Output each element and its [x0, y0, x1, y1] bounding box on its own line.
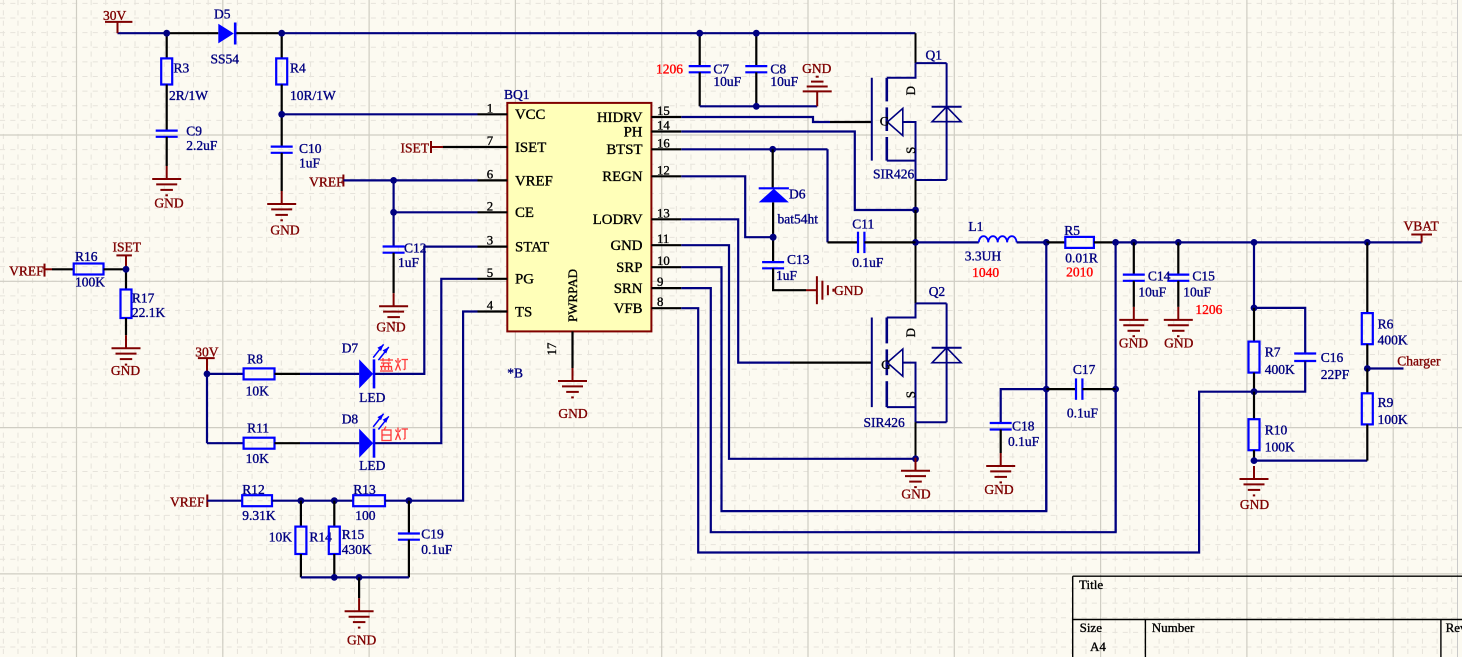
svg-text:R4: R4: [290, 61, 306, 76]
svg-text:PG: PG: [515, 272, 534, 288]
svg-text:2R/1W: 2R/1W: [169, 88, 208, 103]
svg-text:CE: CE: [515, 205, 534, 221]
svg-text:GND: GND: [802, 61, 831, 76]
svg-text:10K: 10K: [269, 530, 293, 545]
svg-text:10R/1W: 10R/1W: [290, 88, 336, 103]
svg-text:1uF: 1uF: [299, 156, 321, 171]
svg-text:SRP: SRP: [616, 260, 642, 276]
svg-text:C15: C15: [1192, 269, 1215, 284]
svg-text:13: 13: [657, 206, 670, 220]
svg-text:Q2: Q2: [929, 284, 946, 299]
svg-text:0.1uF: 0.1uF: [852, 255, 884, 270]
svg-text:R6: R6: [1378, 317, 1394, 332]
svg-text:R17: R17: [132, 291, 155, 306]
svg-text:5: 5: [487, 266, 493, 280]
svg-text:100: 100: [355, 508, 376, 523]
svg-text:Q1: Q1: [926, 48, 943, 63]
svg-text:15: 15: [657, 104, 670, 118]
svg-text:GND: GND: [558, 406, 587, 421]
svg-text:GND: GND: [1240, 497, 1269, 512]
svg-text:0.1uF: 0.1uF: [421, 542, 453, 557]
svg-text:Title: Title: [1079, 577, 1103, 592]
svg-text:G: G: [880, 113, 889, 128]
svg-text:R9: R9: [1378, 395, 1394, 410]
svg-text:10: 10: [657, 254, 670, 268]
svg-text:C13: C13: [787, 252, 810, 267]
svg-text:D: D: [903, 328, 918, 337]
svg-text:VCC: VCC: [515, 107, 546, 123]
svg-text:10uF: 10uF: [1138, 285, 1166, 300]
svg-text:BTST: BTST: [606, 142, 642, 158]
svg-text:ISET: ISET: [113, 240, 142, 255]
svg-text:GND: GND: [1164, 336, 1193, 351]
svg-text:3.3UH: 3.3UH: [965, 249, 1002, 264]
svg-text:GND: GND: [834, 283, 863, 298]
svg-text:S: S: [903, 391, 918, 398]
svg-text:D: D: [903, 86, 918, 95]
svg-text:4: 4: [487, 299, 494, 313]
svg-text:6: 6: [487, 167, 494, 181]
svg-text:22PF: 22PF: [1321, 367, 1350, 382]
svg-text:SIR426: SIR426: [873, 167, 915, 182]
svg-text:D8: D8: [342, 412, 359, 427]
svg-text:SS54: SS54: [211, 52, 240, 67]
svg-text:C17: C17: [1073, 362, 1096, 377]
svg-text:GND: GND: [270, 223, 299, 238]
svg-text:LODRV: LODRV: [593, 212, 643, 228]
svg-text:1206: 1206: [656, 62, 683, 77]
svg-text:G: G: [881, 357, 890, 372]
svg-text:A4: A4: [1090, 639, 1106, 654]
svg-text:REGN: REGN: [602, 169, 643, 185]
svg-text:D5: D5: [214, 7, 231, 22]
svg-text:C10: C10: [299, 141, 322, 156]
svg-text:Number: Number: [1152, 620, 1195, 635]
svg-text:10uF: 10uF: [713, 74, 741, 89]
svg-text:TS: TS: [515, 304, 532, 320]
svg-text:GND: GND: [1119, 336, 1148, 351]
svg-text:GND: GND: [111, 363, 140, 378]
svg-text:7: 7: [487, 134, 494, 148]
svg-text:LED: LED: [359, 390, 385, 405]
svg-text:VREF: VREF: [9, 264, 44, 279]
svg-text:GND: GND: [901, 487, 930, 502]
svg-text:GND: GND: [376, 320, 405, 335]
svg-text:430K: 430K: [342, 542, 372, 557]
svg-text:VREF: VREF: [309, 175, 344, 190]
svg-text:16: 16: [657, 136, 670, 150]
svg-text:100K: 100K: [1265, 440, 1295, 455]
svg-text:R16: R16: [75, 249, 98, 264]
svg-text:R11: R11: [247, 421, 269, 436]
svg-text:17: 17: [545, 342, 559, 355]
svg-text:GND: GND: [347, 633, 376, 648]
svg-text:1040: 1040: [972, 265, 999, 280]
svg-text:Charger: Charger: [1397, 354, 1441, 369]
svg-text:R12: R12: [242, 482, 265, 497]
svg-text:100K: 100K: [1378, 412, 1408, 427]
svg-text:C16: C16: [1321, 350, 1344, 365]
svg-text:2.2uF: 2.2uF: [186, 138, 218, 153]
svg-text:VREF: VREF: [170, 495, 205, 510]
svg-text:GND: GND: [610, 238, 642, 254]
svg-text:10K: 10K: [246, 451, 270, 466]
svg-text:3: 3: [487, 234, 493, 248]
svg-text:12: 12: [657, 163, 670, 177]
svg-text:D7: D7: [342, 341, 359, 356]
svg-text:R13: R13: [353, 482, 376, 497]
svg-text:SIR426: SIR426: [864, 415, 906, 430]
svg-text:1206: 1206: [1195, 302, 1222, 317]
svg-text:11: 11: [657, 232, 669, 246]
svg-text:PWRPAD: PWRPAD: [565, 269, 580, 322]
svg-text:VFB: VFB: [614, 301, 643, 317]
svg-text:R15: R15: [342, 527, 365, 542]
svg-text:0.01R: 0.01R: [1065, 251, 1098, 266]
svg-text:C14: C14: [1148, 269, 1171, 284]
svg-text:D6: D6: [789, 187, 806, 202]
svg-text:9: 9: [657, 275, 663, 289]
svg-text:BQ1: BQ1: [504, 87, 530, 102]
svg-text:C18: C18: [1012, 419, 1035, 434]
svg-text:GND: GND: [984, 482, 1013, 497]
svg-text:C12: C12: [404, 241, 427, 256]
svg-text:2010: 2010: [1066, 265, 1093, 280]
svg-text:SRN: SRN: [614, 281, 643, 297]
svg-text:L1: L1: [968, 219, 983, 234]
svg-text:400K: 400K: [1378, 333, 1408, 348]
svg-text:10uF: 10uF: [1183, 285, 1211, 300]
svg-text:R3: R3: [174, 61, 190, 76]
svg-text:R8: R8: [247, 352, 263, 367]
svg-text:0.1uF: 0.1uF: [1008, 434, 1040, 449]
svg-text:1: 1: [487, 101, 493, 115]
svg-text:R10: R10: [1265, 423, 1288, 438]
svg-text:9.31K: 9.31K: [242, 508, 276, 523]
svg-text:ISET: ISET: [401, 141, 430, 156]
svg-text:LED: LED: [359, 458, 385, 473]
svg-text:S: S: [903, 147, 918, 154]
svg-text:R7: R7: [1265, 345, 1281, 360]
svg-text:30V: 30V: [103, 8, 127, 23]
svg-text:Size: Size: [1080, 620, 1103, 635]
svg-text:VREF: VREF: [515, 173, 553, 189]
svg-text:STAT: STAT: [515, 240, 549, 256]
svg-text:GND: GND: [154, 196, 183, 211]
svg-text:C9: C9: [186, 124, 202, 139]
svg-text:1uF: 1uF: [398, 255, 420, 270]
svg-text:10K: 10K: [246, 384, 270, 399]
svg-text:1uF: 1uF: [776, 268, 798, 283]
svg-text:PH: PH: [624, 124, 643, 140]
svg-text:8: 8: [657, 295, 663, 309]
svg-text:C11: C11: [852, 217, 874, 232]
svg-text:0.1uF: 0.1uF: [1067, 406, 1099, 421]
svg-text:*B: *B: [507, 366, 523, 381]
svg-text:400K: 400K: [1265, 362, 1295, 377]
svg-text:Rev: Rev: [1446, 620, 1462, 635]
svg-text:ISET: ISET: [515, 140, 546, 156]
svg-text:R5: R5: [1064, 223, 1080, 238]
svg-text:10uF: 10uF: [770, 74, 798, 89]
svg-text:2: 2: [487, 199, 493, 213]
svg-text:14: 14: [657, 119, 670, 133]
svg-text:bat54ht: bat54ht: [778, 212, 819, 227]
svg-text:22.1K: 22.1K: [132, 305, 166, 320]
svg-text:C19: C19: [421, 527, 444, 542]
svg-text:VBAT: VBAT: [1404, 219, 1440, 234]
svg-text:100K: 100K: [75, 275, 105, 290]
